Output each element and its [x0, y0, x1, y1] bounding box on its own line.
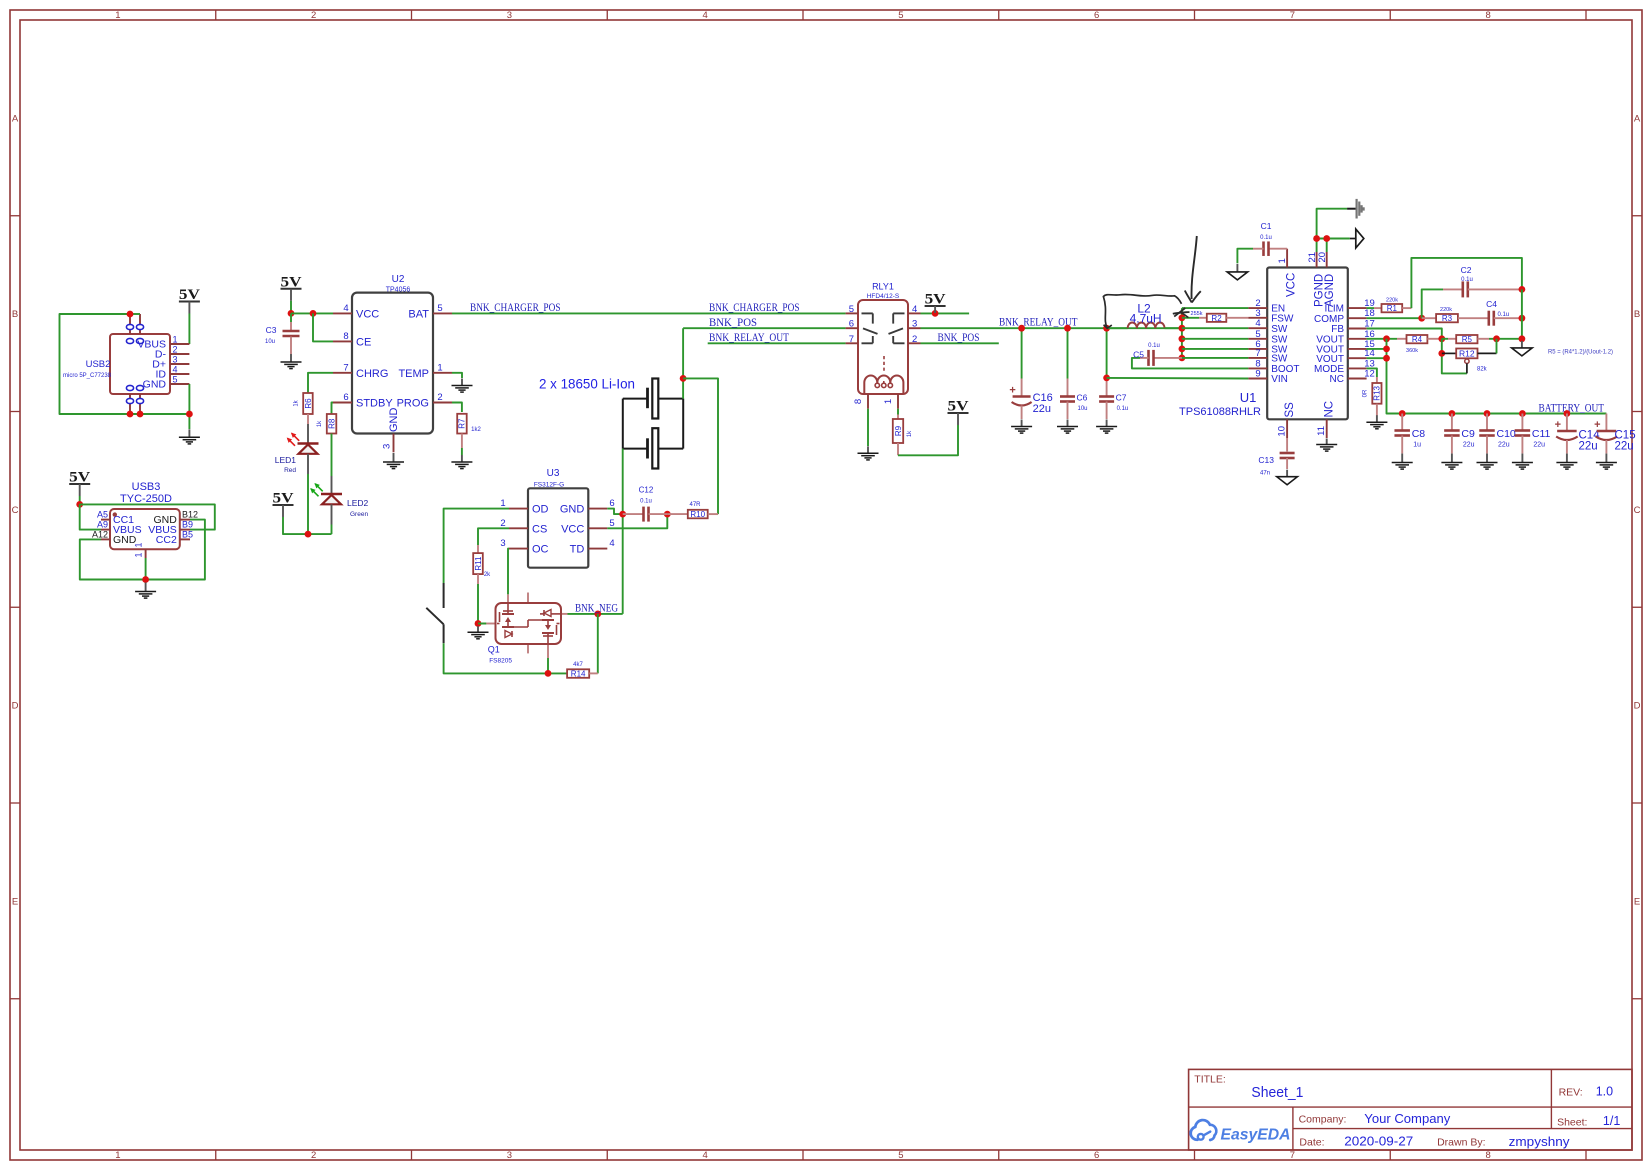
battery cell loop wiring	[623, 399, 683, 449]
junction 5V/C3	[288, 310, 295, 317]
ground for C14	[1556, 454, 1577, 470]
svg-text:A9: A9	[97, 520, 108, 530]
wire	[1237, 249, 1253, 264]
Q1 pin bottom-center (unconnected)	[527, 644, 529, 653]
wire	[283, 517, 332, 534]
svg-text:+: +	[1009, 385, 1015, 397]
svg-text:2: 2	[311, 10, 316, 21]
USB2 shield pin stubs top	[129, 314, 131, 334]
capacitor C9 leads	[1451, 414, 1453, 431]
ground for C11	[1512, 454, 1533, 470]
svg-text:OC: OC	[532, 544, 549, 556]
svg-text:R10: R10	[690, 510, 705, 519]
svg-text:AGND: AGND	[1324, 274, 1336, 307]
svg-text:TD: TD	[570, 544, 585, 556]
svg-text:R14: R14	[571, 670, 586, 679]
ground for C13 (open triangle)	[1277, 470, 1298, 485]
wire	[478, 584, 486, 624]
USB3 pin 1 shield	[145, 549, 147, 558]
svg-text:Drawn By:: Drawn By:	[1437, 1137, 1485, 1149]
svg-text:9: 9	[1255, 369, 1260, 380]
hand-drawn squiggle annotation	[1103, 294, 1181, 327]
svg-text:TITLE:: TITLE:	[1194, 1074, 1226, 1086]
svg-text:BATTERY_OUT: BATTERY_OUT	[1539, 403, 1605, 415]
svg-text:C10: C10	[1497, 428, 1516, 440]
wire	[461, 448, 463, 455]
junction C4/column	[1519, 315, 1526, 322]
wire	[1182, 307, 1249, 309]
svg-text:R5 = (R4*1.2)/(Uout-1.2): R5 = (R4*1.2)/(Uout-1.2)	[1548, 349, 1613, 356]
wire	[1367, 357, 1387, 359]
junction C7/VIN	[1103, 375, 1110, 382]
resistor R7	[457, 414, 467, 434]
capacitor C8	[1394, 431, 1410, 436]
svg-text:360k: 360k	[1406, 348, 1418, 354]
5V power flag	[273, 491, 294, 518]
svg-text:GND: GND	[388, 408, 400, 433]
wire	[331, 525, 333, 535]
svg-text:Your Company: Your Company	[1364, 1111, 1451, 1126]
junction rail/C10	[1484, 410, 1491, 417]
wire	[1387, 339, 1607, 414]
svg-text:5: 5	[898, 10, 903, 21]
U1 chip body TPS61088RHLR	[1267, 268, 1348, 420]
svg-text:Q1: Q1	[488, 645, 500, 655]
ground for C3	[281, 354, 302, 369]
junction USB2 bottom stub 1	[127, 411, 134, 418]
svg-text:0R: 0R	[1363, 389, 1369, 397]
wire	[708, 342, 846, 344]
svg-text:BNK_CHARGER_POS: BNK_CHARGER_POS	[470, 302, 561, 314]
svg-text:1: 1	[437, 362, 442, 373]
junction column/SW5	[1179, 335, 1186, 342]
svg-text:+: +	[1594, 419, 1600, 431]
battery cell 1 (top)	[648, 379, 659, 419]
svg-text:3: 3	[912, 319, 917, 330]
svg-text:C8: C8	[1412, 428, 1426, 440]
wire	[1182, 357, 1249, 359]
RLY1 pin 1	[897, 394, 899, 409]
wire	[478, 623, 486, 625]
U1 pin 9 VIN	[1248, 378, 1267, 380]
capacitor C10	[1479, 431, 1495, 436]
svg-text:Green: Green	[350, 511, 368, 518]
LED2 (green)	[321, 476, 342, 525]
svg-text:RLY1: RLY1	[872, 282, 894, 292]
svg-text:micro 5P_C77238: micro 5P_C77238	[63, 373, 112, 379]
svg-text:2: 2	[912, 334, 917, 345]
svg-text:7: 7	[343, 362, 348, 373]
USB3 pin B12 GND	[180, 519, 190, 521]
junction BNK_NEG	[594, 611, 601, 618]
R12 right lead	[1478, 352, 1497, 354]
svg-text:4: 4	[172, 365, 177, 375]
USB2 connector body	[110, 334, 170, 394]
svg-text:PROG: PROG	[397, 398, 429, 410]
inductor L2	[1128, 322, 1165, 328]
svg-text:1: 1	[500, 498, 505, 509]
svg-text:11: 11	[1316, 426, 1327, 436]
wire	[682, 328, 684, 398]
resistor R2	[1207, 314, 1227, 323]
wire	[867, 409, 869, 446]
capacitor C8 leads	[1401, 414, 1403, 431]
capacitor C10 leads	[1486, 414, 1488, 431]
resistor R3	[1436, 314, 1458, 323]
svg-text:REV:: REV:	[1559, 1087, 1583, 1099]
svg-text:0.1u: 0.1u	[640, 499, 652, 505]
RLY1 pin 3	[908, 327, 921, 329]
svg-text:R6: R6	[304, 398, 313, 409]
capacitor C12 leads	[623, 513, 644, 515]
svg-text:C12: C12	[639, 486, 654, 495]
svg-text:22u: 22u	[1463, 442, 1475, 449]
svg-text:2: 2	[172, 345, 177, 355]
wire	[1367, 348, 1387, 350]
svg-text:C1: C1	[1261, 221, 1272, 231]
svg-text:3: 3	[507, 10, 512, 21]
ground for C6	[1057, 420, 1078, 434]
svg-text:Sheet:: Sheet:	[1557, 1116, 1587, 1128]
junction USB2 top	[127, 311, 134, 318]
USB2 pin 3 D+	[170, 363, 189, 365]
svg-text:U3: U3	[547, 468, 560, 479]
svg-text:4: 4	[912, 304, 917, 315]
svg-text:7: 7	[1290, 10, 1295, 21]
EasyEDA logo	[1191, 1120, 1291, 1143]
junction Q1 source / rail	[545, 670, 552, 677]
svg-text:C3: C3	[266, 325, 277, 335]
capacitor C15 (polarized)	[1594, 419, 1617, 440]
U1 pin 1 VCC	[1286, 249, 1288, 268]
svg-text:EasyEDA: EasyEDA	[1221, 1126, 1291, 1143]
svg-text:C11: C11	[1532, 428, 1551, 440]
junction column/FSW	[1179, 314, 1186, 321]
capacitor C9	[1444, 431, 1460, 436]
junction rail/C11	[1519, 410, 1526, 417]
svg-text:R8: R8	[327, 418, 336, 429]
5V power flag	[281, 274, 302, 301]
U3 pin 5 VCC	[588, 527, 607, 529]
wire	[291, 312, 333, 314]
svg-text:4: 4	[702, 10, 707, 21]
svg-text:B5: B5	[182, 529, 193, 539]
Q1 pin OC (top-left)	[507, 594, 509, 603]
svg-text:R5: R5	[1462, 335, 1473, 344]
U1 pin 11 NC	[1326, 419, 1328, 438]
U1 pin 14 VOUT	[1348, 357, 1367, 359]
svg-text:A: A	[12, 113, 19, 124]
svg-text:R2: R2	[1211, 314, 1222, 323]
USB3 pin B5 CC2	[180, 538, 190, 540]
wire	[1132, 358, 1249, 369]
svg-text:22u: 22u	[1033, 403, 1051, 415]
junction COMP/C2/R3	[1418, 315, 1425, 322]
ground for USB3	[135, 583, 156, 599]
USB2 shield pads (ellipses)	[126, 324, 143, 403]
svg-text:R1: R1	[1387, 304, 1398, 313]
svg-text:Red: Red	[284, 467, 296, 474]
junction LED1/LED2 bottom	[305, 531, 312, 538]
analog ground flag (open arrow)	[1350, 229, 1364, 248]
ground for U1 NC	[1316, 439, 1337, 452]
ground for C7	[1096, 420, 1117, 434]
ground for C8	[1392, 454, 1413, 470]
5V power flag	[948, 399, 969, 426]
junction column/ground	[1519, 335, 1526, 342]
transistor Q1 body FS8205	[496, 603, 562, 644]
battery cell 2 (bottom)	[648, 428, 659, 468]
svg-text:USB3: USB3	[132, 481, 161, 493]
wire	[313, 313, 333, 341]
wire	[1107, 327, 1128, 329]
RLY1 contact set left	[862, 313, 878, 343]
svg-text:SS: SS	[1284, 402, 1296, 418]
svg-text:USB2: USB2	[86, 359, 111, 370]
resistor R4	[1407, 335, 1428, 344]
5V power flag for relay pin 4	[925, 292, 946, 314]
svg-text:CE: CE	[356, 336, 371, 348]
wire	[308, 373, 333, 393]
junction battery positive	[680, 375, 687, 382]
U1 pin 16 VOUT	[1348, 338, 1367, 340]
USB2 pin 5 GND	[170, 383, 189, 385]
svg-text:0.1u: 0.1u	[1148, 343, 1160, 349]
svg-text:0.1u: 0.1u	[1117, 406, 1129, 412]
wire	[1182, 348, 1249, 350]
R12 wiper	[1465, 359, 1469, 373]
svg-text:E: E	[12, 896, 18, 907]
svg-text:8: 8	[343, 331, 348, 342]
U3 pin 3 OC	[509, 548, 528, 550]
junction C12 / R10 / VCC	[664, 511, 671, 518]
ground for R13	[1366, 415, 1387, 429]
wire	[1182, 338, 1249, 340]
svg-text:6: 6	[609, 498, 614, 509]
svg-text:BNK_POS: BNK_POS	[938, 332, 980, 344]
capacitor C5	[1149, 350, 1154, 366]
wire	[188, 384, 190, 429]
hand-drawn arrow annotation	[1185, 236, 1201, 303]
svg-text:1: 1	[134, 552, 144, 557]
wire	[1442, 338, 1448, 340]
svg-text:A5: A5	[97, 510, 108, 520]
capacitor C14 (polarized)	[1555, 419, 1578, 440]
wire	[80, 504, 215, 529]
resistor R1	[1382, 304, 1403, 313]
svg-text:TP4056: TP4056	[386, 287, 411, 294]
svg-text:2 x 18650 Li-Ion: 2 x 18650 Li-Ion	[539, 376, 635, 392]
svg-text:Company:: Company:	[1299, 1114, 1347, 1126]
U2 pin 7 CHRG	[333, 372, 352, 374]
svg-text:1k: 1k	[317, 420, 323, 427]
ground for U2 GND	[383, 453, 404, 469]
U3 pin 1 OD	[509, 508, 528, 510]
svg-text:2k: 2k	[484, 572, 491, 578]
junction U3 GND / C12 / battery negative	[619, 511, 626, 518]
svg-text:TPS61088RHLR: TPS61088RHLR	[1179, 406, 1261, 418]
svg-text:B12: B12	[182, 510, 198, 520]
U2 pin 4 VCC	[333, 312, 352, 314]
U1 pin 19 ILIM	[1348, 307, 1367, 309]
wire	[290, 301, 292, 314]
svg-text:6: 6	[1094, 10, 1099, 21]
svg-text:TYC-250D: TYC-250D	[120, 493, 172, 505]
svg-text:C13: C13	[1258, 455, 1274, 465]
capacitor C6	[1060, 397, 1075, 402]
RLY1 pin 7	[846, 342, 858, 344]
capacitor C11 leads	[1521, 414, 1523, 431]
wire	[1442, 339, 1467, 374]
svg-text:20: 20	[1317, 252, 1328, 263]
wire	[1422, 289, 1443, 318]
junction VOUT 15	[1383, 346, 1390, 353]
svg-text:SW: SW	[1271, 354, 1288, 365]
svg-text:10: 10	[1277, 426, 1288, 437]
svg-text:6: 6	[849, 319, 854, 330]
wire	[1182, 317, 1199, 319]
U1 pin 20 AGND	[1326, 252, 1328, 268]
U1 pin 6 SW	[1248, 348, 1267, 350]
wire	[1107, 377, 1249, 380]
svg-text:220k: 220k	[1440, 307, 1452, 313]
wire	[79, 496, 81, 504]
wire	[1106, 328, 1108, 378]
svg-text:HFD4/12-S: HFD4/12-S	[867, 293, 900, 300]
USB2 pin 2 D-	[170, 353, 189, 355]
U1 pin 13 MODE	[1348, 367, 1367, 369]
svg-text:3: 3	[507, 1150, 512, 1161]
resistor R6	[303, 393, 313, 414]
wire	[1367, 307, 1374, 309]
wire	[1326, 239, 1328, 253]
svg-text:22u: 22u	[1533, 442, 1545, 449]
svg-text:C7: C7	[1116, 393, 1127, 403]
svg-text:VCC: VCC	[561, 523, 584, 535]
svg-text:R13: R13	[1373, 385, 1382, 400]
wire	[1489, 338, 1522, 340]
junction column/SW7	[1179, 355, 1186, 362]
capacitor C12	[644, 507, 649, 522]
ground for USB2	[179, 429, 200, 444]
svg-text:CC2: CC2	[156, 534, 177, 546]
svg-text:B: B	[12, 309, 18, 320]
svg-text:6: 6	[343, 392, 348, 403]
svg-text:1/1: 1/1	[1603, 1114, 1620, 1128]
Q1 pin bottom-right	[547, 644, 549, 658]
wire	[452, 312, 846, 314]
ground for divider (open triangle)	[1512, 341, 1533, 356]
svg-text:47n: 47n	[1260, 471, 1270, 477]
svg-text:R11: R11	[474, 556, 483, 571]
svg-text:2: 2	[437, 392, 442, 403]
ground for C1 (open triangle)	[1227, 264, 1248, 280]
svg-text:A: A	[1634, 113, 1641, 124]
svg-text:4.7uH: 4.7uH	[1130, 312, 1162, 326]
svg-text:5: 5	[849, 304, 854, 315]
U2 pin 6 STDBY	[333, 402, 352, 404]
capacitor C1	[1264, 241, 1269, 256]
wire	[1021, 328, 1023, 378]
svg-text:D: D	[1634, 701, 1641, 712]
U2 pin 3 GND	[393, 434, 395, 453]
svg-text:B9: B9	[182, 520, 193, 530]
wire	[1367, 338, 1397, 340]
wire	[1317, 209, 1348, 252]
svg-text:Sheet_1: Sheet_1	[1251, 1085, 1303, 1101]
U3 pin 4 TD	[588, 548, 607, 550]
Q1 pin right-middle	[561, 613, 568, 615]
svg-text:VCC: VCC	[356, 308, 379, 320]
svg-text:2020-09-27: 2020-09-27	[1344, 1134, 1413, 1149]
U3 pin 2 CS	[509, 527, 528, 529]
wire	[452, 373, 462, 378]
svg-text:1k2: 1k2	[471, 427, 481, 433]
svg-text:1: 1	[115, 10, 120, 21]
USB3 pin A9 VBUS	[101, 529, 110, 531]
wire	[452, 403, 462, 413]
ground for C10	[1477, 454, 1498, 470]
USB2 shield pin stubs bottom	[129, 394, 131, 414]
svg-text:BNK_POS: BNK_POS	[709, 317, 757, 329]
wire	[547, 658, 549, 673]
capacitor C1 leads	[1269, 248, 1288, 250]
svg-text:8: 8	[853, 399, 864, 404]
junction rail/C16	[1018, 325, 1025, 332]
svg-text:1: 1	[115, 1150, 120, 1161]
svg-text:FS8205: FS8205	[489, 658, 512, 665]
capacitor C11	[1515, 431, 1531, 436]
wire	[290, 313, 292, 322]
U1 pin 17 FB	[1348, 328, 1367, 330]
svg-text:GND: GND	[560, 504, 585, 516]
svg-text:3: 3	[1255, 308, 1260, 319]
svg-text:0.1u: 0.1u	[1260, 235, 1272, 241]
RLY1 coil dashed link	[883, 356, 885, 373]
RLY1 pin 4	[908, 312, 921, 314]
svg-text:1u: 1u	[1413, 442, 1421, 449]
U3 pin 6 GND	[588, 508, 607, 510]
ground for R11	[468, 626, 489, 639]
junction column/SW6	[1179, 346, 1186, 353]
LED1 emission arrows	[287, 433, 300, 446]
capacitor C3	[283, 331, 300, 336]
wire	[683, 327, 846, 329]
chassis/noise ground flag (filled)	[1347, 199, 1364, 219]
wire	[332, 403, 334, 415]
relay RLY1 body	[858, 300, 908, 394]
wire	[478, 528, 509, 545]
svg-text:5: 5	[437, 303, 442, 314]
svg-text:0.1u: 0.1u	[1461, 277, 1473, 283]
wire	[80, 520, 205, 580]
RLY1 pin 6	[846, 327, 858, 329]
wire	[568, 613, 623, 615]
junction R12 left	[1438, 350, 1445, 357]
U2 pin 8 CE	[333, 340, 352, 342]
svg-text:4k7: 4k7	[573, 662, 583, 668]
svg-text:D: D	[12, 701, 19, 712]
svg-text:C2: C2	[1461, 265, 1472, 275]
svg-text:Date:: Date:	[1299, 1137, 1324, 1149]
wire	[80, 504, 101, 529]
junction rail/C8	[1399, 410, 1406, 417]
RLY1 pin 2	[908, 342, 921, 344]
wire	[1367, 317, 1422, 319]
svg-text:OD: OD	[532, 504, 549, 516]
junction USB3 GND node	[142, 576, 149, 583]
svg-text:3: 3	[500, 538, 505, 549]
